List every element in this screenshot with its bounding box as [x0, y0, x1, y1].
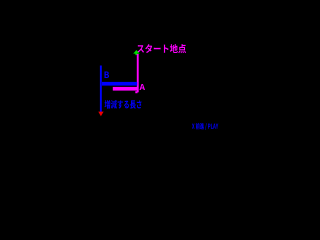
start direction arrow (green, pointing up): [133, 50, 139, 55]
node: start point label "スタート地点": [137, 44, 186, 53]
watermark: small blue caption bottom-right: [192, 123, 218, 130]
red arrowhead pointing down at bottom of blue line: [98, 112, 103, 117]
node B: label B (blue): [105, 72, 109, 78]
label: 増減する長さ (length to increase/decrease, blue): [104, 100, 141, 109]
segment B: horizontal blue bar: [102, 82, 137, 86]
arrow foot at bottom of magenta line: [135, 91, 137, 93]
wire: vertical magenta path line from start point down: [137, 54, 139, 92]
wire: vertical blue dimension line: [100, 66, 102, 113]
node A: label A (magenta): [139, 84, 144, 90]
segment A: horizontal magenta bar: [113, 87, 138, 91]
